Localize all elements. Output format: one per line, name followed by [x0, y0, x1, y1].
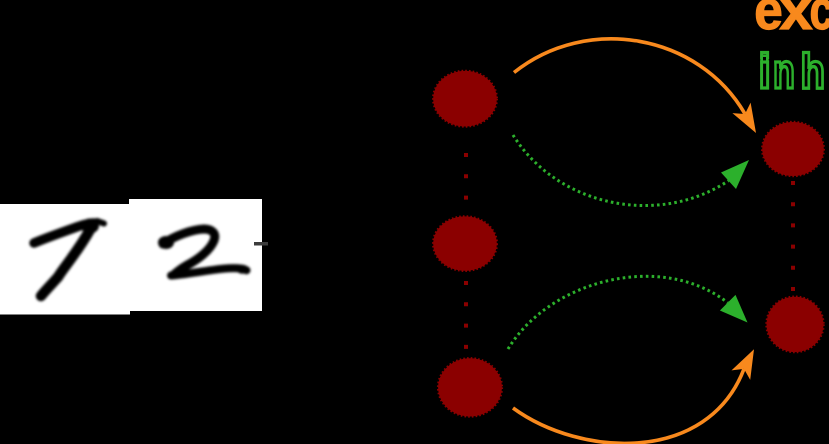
excitatory arrow X3 to Y2 (shaft) — [513, 369, 744, 443]
input image box 1 (digit 7) — [0, 204, 130, 315]
svg-text:h: h — [801, 44, 826, 99]
dotted ellipsis between X2 and X3 — [464, 281, 468, 349]
svg-text:x: x — [780, 0, 813, 42]
dotted ellipsis between Y1 and Y2 — [791, 181, 795, 291]
label inh — [759, 44, 826, 100]
excitatory arrow X1 to Y1 (shaft) — [514, 39, 745, 114]
neuron X3 (input column, bottom) — [438, 358, 502, 416]
svg-text:i: i — [759, 44, 771, 99]
neuron Y1 (output column, top) — [762, 122, 824, 176]
inhibitory arrow X1 to Y1 (head) — [721, 160, 749, 189]
gray dash connector at right of digit 2 box — [254, 242, 268, 246]
inhibitory arrow X3 to Y2 (shaft, dotted) — [508, 276, 728, 349]
excitatory arrow X3 to Y2 (head) — [732, 349, 755, 380]
label exc — [754, 0, 829, 42]
neuron Y2 (output column, bottom) — [767, 297, 824, 352]
handwritten digit 2 — [158, 229, 249, 276]
neuron X2 (input column, middle) — [433, 216, 497, 270]
dotted ellipsis between X1 and X2 — [464, 153, 468, 201]
inhibitory arrow X1 to Y1 (shaft, dotted) — [513, 135, 729, 206]
svg-text:e: e — [754, 0, 783, 42]
input image box 2 (digit 2) — [129, 199, 262, 311]
excitatory arrow X1 to Y1 (head) — [732, 103, 756, 133]
handwritten digit 7 — [34, 219, 104, 297]
inhibitory arrow X3 to Y2 (head) — [720, 295, 748, 323]
neuron X1 (input column, top) — [433, 71, 497, 127]
svg-text:n: n — [773, 45, 795, 100]
svg-text:c: c — [810, 0, 829, 41]
